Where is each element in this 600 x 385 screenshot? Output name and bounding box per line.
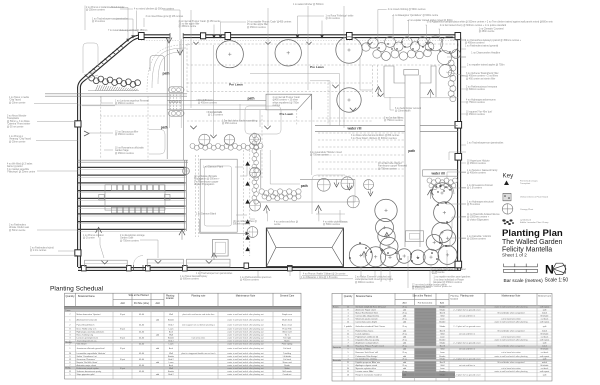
svg-text:cut to base late winter: cut to base late winter — [501, 367, 521, 370]
svg-text:mulch: mulch — [542, 345, 547, 347]
svg-text:Quantity: Quantity — [344, 295, 353, 298]
svg-text:@ 150mm centres: @ 150mm centres — [467, 238, 487, 241]
svg-text:Transplant: Transplant — [520, 182, 531, 185]
svg-text:6 no beds border removal: 6 no beds border removal — [395, 107, 422, 110]
svg-text:Trim Aug: Trim Aug — [283, 352, 291, 355]
svg-text:45-60: 45-60 — [139, 359, 145, 361]
svg-text:@ 1.5l centres: @ 1.5l centres — [467, 187, 483, 190]
svg-text:clipped Propagation: clipped Propagation — [194, 183, 215, 186]
svg-text:'Fillecrisps' @ 20mm centre: 'Fillecrisps' @ 20mm centre — [7, 171, 36, 174]
svg-text:Mulch feed: Mulch feed — [282, 319, 292, 321]
svg-text:split: split — [543, 308, 547, 311]
svg-text:@ 2m centres: @ 2m centres — [326, 17, 341, 20]
svg-text:water in well and mulch after: water in well and mulch after planting o… — [227, 313, 264, 316]
svg-text:Shade: Shade — [440, 359, 447, 361]
svg-text:3 no deep individual or Prayer: 3 no deep individual or Prayer — [434, 278, 465, 281]
svg-text:cut to base late winter: cut to base late winter — [501, 317, 521, 320]
svg-text:Heuchera 'Palace Purple' mixed: Heuchera 'Palace Purple' mixed — [356, 345, 384, 347]
svg-text:water in well and mulch after: water in well and mulch after planting o… — [227, 343, 264, 346]
svg-text:@ 450mm centres: @ 450mm centres — [467, 162, 487, 165]
svg-text:water in well and mulch after: water in well and mulch after planting o… — [227, 328, 264, 331]
svg-text:1 no espalier rambler panel ga: 1 no espalier rambler panel gardens — [434, 276, 472, 279]
svg-text:5: 5 — [69, 374, 71, 376]
svg-text:@ 450mm centres: @ 450mm centres — [240, 279, 260, 282]
svg-text:Add: Add — [403, 301, 408, 304]
svg-text:2l sq: 2l sq — [402, 339, 406, 341]
svg-text:45-60: 45-60 — [139, 365, 145, 367]
svg-text:45-60: 45-60 — [139, 325, 145, 327]
svg-text:@ 750mm centres: @ 750mm centres — [466, 101, 486, 104]
svg-text:water in well and mulch after: water in well and mulch after planting o… — [227, 355, 264, 358]
svg-text:Quantity: Quantity — [66, 295, 76, 298]
svg-text:Tie in: Tie in — [285, 335, 290, 337]
svg-text:3 no 'New Dawn' climbers @ 600: 3 no 'New Dawn' climbers @ 600mm centres — [351, 137, 398, 140]
svg-text:Border: Border — [168, 371, 174, 373]
svg-text:Pulmonaria 'Blue Ensign': Pulmonaria 'Blue Ensign' — [356, 356, 379, 358]
planting schedule table right — [332, 293, 552, 381]
svg-text:Sheet 1 of 2: Sheet 1 of 2 — [502, 253, 527, 258]
svg-text:Lawn: Lawn — [169, 362, 174, 364]
svg-text:location: location — [451, 297, 459, 300]
svg-text:1 no Fatshedera trained pyrami: 1 no Fatshedera trained pyramid — [465, 44, 499, 47]
svg-text:Garden Gate: Garden Gate — [120, 237, 134, 240]
svg-text:Carex elata aurea bright: Carex elata aurea bright — [356, 320, 378, 323]
svg-text:4 no Prunus 'Arakin' Globart @: 4 no Prunus 'Arakin' Globart @ 2m centre — [303, 272, 346, 275]
svg-text:4 no internal Prunus 'Cade': 4 no internal Prunus 'Cade' — [273, 96, 301, 99]
wall pillars — [75, 33, 462, 271]
svg-text:set out and firm in: set out and firm in — [459, 314, 475, 317]
svg-text:@ 250mm centres: @ 250mm centres — [86, 9, 106, 12]
svg-text:lift divide: lift divide — [541, 314, 550, 317]
svg-text:Prune Feb: Prune Feb — [282, 329, 292, 331]
svg-text:@ 5l centres: @ 5l centres — [467, 203, 481, 206]
svg-text:2 - 3 plant m2 as ground cover: 2 - 3 plant m2 as ground cover — [453, 358, 480, 361]
svg-text:Lift divide: Lift divide — [283, 355, 292, 358]
svg-text:4 no internal Prunus 'Cade' @: 4 no internal Prunus 'Cade' @ 450 centre — [179, 20, 222, 23]
svg-text:Farmhouse copper Renewal: Farmhouse copper Renewal — [378, 165, 407, 168]
pergola beams — [78, 160, 187, 231]
svg-text:500mm centres: 500mm centres — [233, 223, 250, 226]
svg-text:water in well and mulch after: water in well and mulch after planting — [495, 338, 528, 341]
spare — [0, 0, 1, 1]
svg-text:lift divide: lift divide — [541, 364, 550, 367]
title block — [502, 228, 563, 258]
specimen shrubs (crossed circles) — [183, 134, 374, 238]
svg-text:water in well and mulch after: water in well and mulch after planting o… — [227, 340, 264, 343]
svg-text:split: split — [543, 341, 547, 344]
svg-text:Border: Border — [439, 356, 445, 358]
key legend — [502, 173, 549, 226]
svg-text:2 - 3 plant m2 as ground cover: 2 - 3 plant m2 as ground cover — [453, 308, 480, 311]
svg-text:Myosotis sylvatica blue: Myosotis sylvatica blue — [356, 367, 377, 370]
svg-text:Astrantia major claret: Astrantia major claret — [77, 364, 97, 367]
dashed bed dividers — [100, 96, 250, 256]
svg-text:cut back: cut back — [541, 317, 548, 320]
svg-text:45-60: 45-60 — [139, 371, 145, 373]
svg-text:Maintenance Note: Maintenance Note — [236, 294, 256, 297]
svg-text:soft repeat: soft repeat — [540, 355, 550, 358]
svg-text:10 no like hebe clipped: 10 no like hebe clipped — [378, 163, 402, 165]
svg-text:Stake: Stake — [284, 367, 290, 370]
svg-text:Geranium 'Rozanne': Geranium 'Rozanne' — [77, 358, 96, 361]
svg-text:Wall: Wall — [440, 365, 444, 367]
svg-text:Pot Size (Litre): Pot Size (Litre) — [418, 301, 433, 304]
svg-text:2l sq: 2l sq — [402, 326, 406, 328]
svg-text:water in well and mulch after: water in well and mulch after planting — [495, 355, 528, 358]
svg-text:Botanical Name: Botanical Name — [78, 295, 96, 298]
svg-text:Lawn: Lawn — [169, 344, 174, 346]
svg-text:Lunaria annua 'Alba': Lunaria annua 'Alba' — [356, 370, 375, 373]
svg-text:N: N — [545, 263, 554, 277]
svg-text:2l sq: 2l sq — [402, 359, 406, 361]
svg-text:(4) no Salvia officinalis: (4) no Salvia officinalis — [194, 176, 218, 178]
svg-text:Verbal reference Plant Stand: Verbal reference Plant Stand — [520, 196, 549, 199]
svg-text:Asplenium scolopendrium: Asplenium scolopendrium — [356, 341, 379, 344]
svg-text:Arch: Arch — [169, 347, 173, 350]
svg-text:Bed 2: Bed 2 — [168, 325, 174, 327]
svg-text:3 no 1m box fillers: 3 no 1m box fillers — [384, 117, 403, 120]
svg-text:Malus 'Red Sentinel' fleet: Malus 'Red Sentinel' fleet — [356, 311, 379, 314]
svg-text:Pre Lawn: Pre Lawn — [310, 65, 324, 69]
svg-text:soft repeat: soft repeat — [540, 306, 550, 309]
svg-text:@ 450mm centres + 2 no fillers: @ 450mm centres + 2 no fillers — [466, 75, 499, 78]
glasshouse with hip roof — [266, 228, 343, 267]
svg-text:Wall: Wall — [169, 368, 173, 370]
svg-text:2 - 3 plant m2 as ground cover: 2 - 3 plant m2 as ground cover — [453, 373, 480, 376]
svg-text:Trees: Trees — [65, 310, 70, 312]
svg-text:Water well: Water well — [282, 331, 292, 334]
svg-text:2: 2 — [69, 325, 71, 327]
svg-text:water rill: water rill — [431, 172, 446, 176]
svg-text:1: 1 — [69, 348, 71, 350]
svg-text:Hakonechloa macra: Hakonechloa macra — [356, 330, 375, 332]
svg-text:3l pot: 3l pot — [120, 367, 125, 370]
svg-text:1 no Trachelospermum jasminoid: 1 no Trachelospermum jasminoides — [467, 142, 504, 145]
svg-text:Trim light: Trim light — [283, 337, 292, 340]
svg-text:Bed 2: Bed 2 — [168, 359, 174, 361]
svg-text:@ 450mm centres: @ 450mm centres — [247, 26, 267, 29]
east wall plant chain — [448, 60, 456, 102]
svg-text:Lawn: Lawn — [440, 336, 445, 338]
svg-text:3l pot: 3l pot — [120, 358, 125, 361]
bed outline north-middle — [245, 106, 281, 134]
svg-text:cut to base late winter: cut to base late winter — [501, 335, 521, 338]
svg-text:1 no Rosa 'Felbridge' treble: 1 no Rosa 'Felbridge' treble — [326, 15, 355, 18]
svg-text:@ 450mm centres: @ 450mm centres — [115, 133, 135, 136]
svg-text:underplanted with mixed spring: underplanted with mixed spring bulbs — [355, 278, 394, 281]
svg-text:symbolised: symbolised — [520, 220, 532, 222]
svg-text:Jasminum officinale grand trai: Jasminum officinale grand trail — [77, 347, 106, 350]
north arrow and scale — [545, 263, 569, 284]
svg-text:Border: Border — [168, 319, 174, 321]
svg-text:2 no Malus 'Evereste' pleached: 2 no Malus 'Evereste' pleached and — [355, 276, 392, 279]
svg-text:climate 'Aruba' seat: climate 'Aruba' seat — [9, 226, 29, 229]
svg-text:water in well and mulch after: water in well and mulch after planting — [495, 306, 528, 309]
svg-text:add: add — [403, 362, 406, 364]
svg-text:1 no Taxus x media: 1 no Taxus x media — [9, 97, 29, 99]
svg-text:Tiarella cordifolia: Tiarella cordifolia — [356, 348, 372, 350]
svg-text:plant with root barrier and st: plant with root barrier and stake firm — [182, 313, 214, 316]
svg-text:water in well and mulch after: water in well and mulch after planting o… — [227, 318, 264, 321]
svg-text:3 no Alnus Wonder: 3 no Alnus Wonder — [7, 115, 27, 118]
svg-text:add: add — [156, 335, 159, 337]
svg-text:soft repeat: soft repeat — [540, 320, 550, 323]
svg-text:1 no Hydrangea structural: 1 no Hydrangea structural — [467, 201, 494, 204]
path edge above pergola — [78, 160, 188, 162]
svg-text:split: split — [543, 373, 547, 376]
svg-text:2l sq: 2l sq — [402, 312, 406, 314]
svg-text:water in well and mulch after: water in well and mulch after planting o… — [227, 337, 264, 340]
svg-text:Rosa 'Iceberg' clg: Rosa 'Iceberg' clg — [77, 334, 94, 337]
svg-text:lift divide: lift divide — [541, 332, 550, 335]
svg-text:1 no Prunus modest: 1 no Prunus modest — [83, 234, 104, 237]
arch detail — [431, 183, 454, 194]
svg-text:5 no Farmhouse copper: 5 no Farmhouse copper — [194, 180, 219, 183]
svg-text:plant in staggered double row: plant in staggered double row as low h — [181, 352, 215, 355]
svg-text:Salvia 'Caradonna' int: Salvia 'Caradonna' int — [77, 355, 98, 358]
svg-text:Add: Add — [155, 302, 160, 305]
svg-text:water in well and mulch after: water in well and mulch after planting o… — [227, 367, 264, 370]
svg-text:add: add — [156, 319, 159, 321]
svg-text:Brunnera 'Jack Frost' still: Brunnera 'Jack Frost' still — [356, 351, 379, 354]
svg-text:mulch: mulch — [542, 362, 547, 364]
svg-text:wire support set out before pl: wire support set out before planting o — [182, 324, 216, 327]
svg-text:Bed 3: Bed 3 — [440, 312, 446, 314]
svg-text:centres: centres — [273, 104, 281, 107]
planting schedule table left — [65, 293, 302, 379]
svg-text:15 no like apple filler: 15 no like apple filler — [247, 23, 268, 26]
svg-text:Transplants: Transplants — [7, 117, 20, 120]
svg-text:3 no Rosa rubra bonica Ambitio: 3 no Rosa rubra bonica Ambition @450 cen… — [351, 134, 400, 137]
svg-text:@ 750mm centres: @ 750mm centres — [378, 167, 398, 170]
svg-text:21: 21 — [347, 362, 350, 364]
svg-text:mulch: mulch — [542, 330, 547, 332]
svg-text:3 no Fatshedera: 3 no Fatshedera — [9, 224, 26, 227]
svg-text:Lawn: Lawn — [440, 368, 445, 370]
svg-text:2 - 3 plant m2 as ground cover: 2 - 3 plant m2 as ground cover — [453, 325, 480, 328]
svg-text:Feed spring: Feed spring — [282, 344, 293, 346]
svg-text:water in well and mulch after: water in well and mulch after planting o… — [227, 364, 264, 367]
svg-text:Verbena bonariensis purity: Verbena bonariensis purity — [77, 370, 103, 373]
svg-text:Pre Lawn: Pre Lawn — [229, 83, 243, 87]
svg-text:Pyrus Broad Beech: Pyrus Broad Beech — [77, 324, 96, 327]
svg-text:10 squares? for 40m 'just': 10 squares? for 40m 'just' — [466, 111, 493, 114]
svg-text:11 no Hyacinths Azalea Flounce: 11 no Hyacinths Azalea Flounce — [467, 213, 500, 216]
svg-text:Border: Border — [439, 339, 445, 341]
svg-text:45-60: 45-60 — [139, 338, 145, 340]
callout note box — [266, 94, 312, 110]
svg-text:add: add — [403, 321, 406, 323]
dashed lower lawn terraces — [262, 115, 405, 179]
svg-text:Comb out: Comb out — [283, 373, 292, 376]
svg-text:@ 750mm centres: @ 750mm centres — [384, 119, 404, 122]
svg-text:10 no Rosmarinus officinalis: 10 no Rosmarinus officinalis — [115, 147, 145, 150]
svg-text:@ 450mm centre: @ 450mm centre — [179, 25, 197, 28]
svg-text:3l pot: 3l pot — [120, 337, 125, 340]
svg-text:Roses: Roses — [333, 307, 339, 309]
svg-text:Vitis 'Brant': Vitis 'Brant' — [77, 343, 88, 346]
svg-text:set out and firm in: set out and firm in — [459, 364, 475, 367]
svg-text:@ 450mm centres: @ 450mm centres — [115, 102, 135, 105]
svg-text:4 no Lavandula 'Hidcote' mixed: 4 no Lavandula 'Hidcote' mixed — [310, 151, 342, 154]
svg-text:lift and divide when congested: lift and divide when congested — [498, 329, 525, 332]
svg-text:Wall: Wall — [440, 348, 444, 350]
svg-text:15 no like apple filler: 15 no like apple filler — [179, 23, 200, 26]
svg-text:Dryopteris filix-mas quality: Dryopteris filix-mas quality — [356, 338, 379, 341]
svg-text:Border: Border — [439, 321, 445, 323]
svg-text:Wall: Wall — [169, 335, 173, 337]
svg-text:@ choice Edgecases: @ choice Edgecases — [467, 219, 489, 221]
svg-text:General Care: General Care — [280, 294, 295, 297]
svg-text:water rill: water rill — [347, 127, 362, 131]
svg-text:Self seeds: Self seeds — [282, 371, 291, 373]
bed outline east room — [312, 94, 345, 214]
svg-text:lift divide: lift divide — [541, 347, 550, 350]
svg-text:Planting Schedual: Planting Schedual — [50, 285, 104, 292]
svg-text:45-60: 45-60 — [139, 314, 145, 316]
svg-text:@ 450mm centres: @ 450mm centres — [467, 172, 487, 175]
svg-text:Border: Border — [168, 338, 174, 340]
svg-text:water in well and mulch after: water in well and mulch after planting o… — [227, 331, 264, 334]
svg-text:2l sq: 2l sq — [402, 352, 406, 354]
svg-text:Shade: Shade — [440, 326, 447, 328]
svg-text:whips espaliered @ 750m: whips espaliered @ 750m — [273, 101, 300, 104]
svg-text:Wall: Wall — [169, 353, 173, 355]
svg-text:3 no market supertitle: 3 no market supertitle — [7, 168, 30, 171]
svg-text:Fern/shrub verges: Fern/shrub verges — [520, 180, 539, 183]
svg-text:Aquilegia vulgaris mixed: Aquilegia vulgaris mixed — [356, 364, 378, 367]
svg-text:1 no Clematis 'Countess': 1 no Clematis 'Countess' — [479, 28, 505, 31]
svg-text:Bed 3: Bed 3 — [440, 330, 446, 332]
svg-text:Lonicera periclymenum: Lonicera periclymenum — [77, 337, 99, 340]
svg-text:2 no Fatshedera hybrid: 2 no Fatshedera hybrid — [30, 247, 54, 250]
svg-text:7: 7 — [69, 314, 71, 316]
svg-text:'Caterina' Finest winter: 'Caterina' Finest winter — [7, 123, 30, 126]
svg-text:Polystichum setiferum sld: Polystichum setiferum sld — [356, 335, 379, 338]
svg-text:1 no Fillasacus x Intra @ 1.5l: 1 no Fillasacus x Intra @ 1.5l centre — [301, 276, 338, 279]
svg-text:'Amanog' 'Chip' faced: 'Amanog' 'Chip' faced — [9, 138, 32, 141]
svg-text:@ 500m centres: @ 500m centres — [323, 223, 341, 226]
svg-text:4 no Hydrangea arborescens: 4 no Hydrangea arborescens — [466, 99, 496, 102]
svg-text:Arch: Arch — [169, 331, 173, 334]
svg-text:Gertrude Jekyll old Rose dbl q: Gertrude Jekyll old Rose dbl quad — [356, 306, 386, 309]
svg-text:@ 450m centre: @ 450m centre — [479, 30, 495, 33]
svg-text:Wall: Wall — [440, 315, 444, 317]
svg-text:Edible Lavender Plant Clump: Edible Lavender Plant Clump — [520, 221, 549, 224]
path - middle room edges — [258, 150, 355, 202]
svg-text:Bed 3: Bed 3 — [440, 345, 446, 347]
svg-text:Wall: Wall — [440, 333, 444, 335]
svg-text:water in well and mulch after: water in well and mulch after planting o… — [227, 352, 264, 355]
svg-text:@ 50 net centre: @ 50 net centre — [7, 125, 24, 128]
svg-text:2l sq: 2l sq — [402, 371, 406, 373]
svg-text:Bed 3: Bed 3 — [440, 362, 446, 364]
bench table with chairs — [99, 185, 170, 213]
svg-text:1 no award climber @ 500mm: 1 no award climber @ 500mm — [293, 3, 324, 6]
svg-text:2l sq: 2l sq — [402, 365, 406, 367]
svg-text:Hesperis matronalis mixed lot: Hesperis matronalis mixed lot — [356, 373, 383, 376]
svg-text:Digitalis purpurea 'Alba' mix: Digitalis purpurea 'Alba' mix — [356, 361, 381, 364]
bar scale — [504, 264, 544, 284]
svg-text:1 no Lonicera arquebus Renewal: 1 no Lonicera arquebus Renewal — [115, 100, 149, 103]
svg-text:mulch: mulch — [542, 312, 547, 314]
svg-text:@ 450mm centres: @ 450mm centres — [198, 102, 218, 105]
svg-text:5: 5 — [347, 352, 349, 354]
svg-text:3l pot: 3l pot — [120, 328, 125, 331]
svg-text:Basic clean: Basic clean — [282, 325, 292, 327]
svg-text:@ 450mm centres: @ 450mm centres — [466, 113, 486, 116]
svg-text:water in well and mulch after: water in well and mulch after planting o… — [227, 324, 264, 327]
svg-text:Garden Sage: Garden Sage — [115, 149, 129, 152]
svg-text:Add: Add — [120, 302, 125, 305]
svg-text:set out and firm in: set out and firm in — [459, 332, 475, 335]
svg-text:2l sq: 2l sq — [402, 307, 406, 309]
svg-text:Propagation @ 500mm +: Propagation @ 500mm + — [194, 178, 220, 181]
svg-text:2l sq: 2l sq — [402, 345, 406, 347]
gate opening — [134, 256, 144, 271]
svg-text:1 no Damson Blank: 1 no Damson Blank — [196, 214, 217, 216]
svg-text:Iris foetidissima stinking: Iris foetidissima stinking — [356, 358, 377, 361]
svg-text:path: path — [161, 125, 168, 129]
tree canopies — [216, 37, 457, 267]
svg-text:3 no Verbena 'Sissinghurst' fi: 3 no Verbena 'Sissinghurst' filler — [466, 72, 499, 75]
svg-text:Border: Border — [439, 371, 445, 373]
svg-text:@450 centres + 15 silver: @450 centres + 15 silver — [273, 99, 299, 102]
svg-text:water in well and mulch after: water in well and mulch after planting o… — [227, 347, 264, 350]
svg-text:2 no fan trained cherry @ 600m: 2 no fan trained cherry @ 600mm centres … — [440, 24, 507, 27]
raised beds along south wall — [85, 259, 230, 267]
scallop bed below tree row — [190, 143, 263, 150]
svg-text:1 no Taxus baccata topiary: 1 no Taxus baccata topiary — [180, 275, 208, 278]
svg-text:2 no trellis clad panel fence: 2 no trellis clad panel fence panel — [432, 268, 467, 271]
svg-text:soft repeat: soft repeat — [540, 370, 550, 373]
svg-text:Staple care: Staple care — [282, 313, 293, 316]
svg-text:@ 1500mm centres +: @ 1500mm centres + — [467, 216, 490, 219]
svg-text:Planting Plan: Planting Plan — [502, 228, 563, 239]
svg-text:@ 450mm centres: @ 450mm centres — [115, 152, 135, 155]
svg-text:4 no umbra arch/box @: 4 no umbra arch/box @ — [274, 220, 299, 223]
outside path loop — [83, 43, 98, 73]
svg-text:add: add — [403, 368, 406, 370]
svg-text:Bar scale (metres): Bar scale (metres) — [504, 278, 544, 284]
svg-text:(4) no picked arches @: (4) no picked arches @ — [233, 220, 257, 223]
svg-text:@ set centres: @ set centres — [412, 288, 425, 291]
water rill east — [423, 170, 458, 176]
svg-text:path: path — [248, 97, 255, 101]
svg-text:add: add — [403, 348, 406, 350]
svg-text:Add: Add — [440, 301, 445, 304]
svg-text:Shade: Shade — [440, 309, 447, 311]
scallop east bed — [427, 178, 458, 190]
area labels — [161, 65, 415, 188]
svg-text:Anemone 'Royal' claret: Anemone 'Royal' claret — [356, 308, 377, 311]
svg-text:water in well and mulch after: water in well and mulch after planting o… — [227, 361, 264, 364]
svg-text:lift and divide when congested: lift and divide when congested — [498, 361, 525, 364]
svg-text:Bed 2: Bed 2 — [168, 341, 174, 343]
svg-text:3 no mixed Rose grow @ 2l5 cen: 3 no mixed Rose grow @ 2l5 centres — [146, 15, 185, 18]
svg-text:Malus domestica 'Spartan': Malus domestica 'Spartan' — [77, 313, 102, 316]
svg-text:@ 10mm width: @ 10mm width — [395, 110, 411, 113]
svg-text:Trachelospermum jas.: Trachelospermum jas. — [77, 340, 98, 343]
svg-text:water in well and mulch after: water in well and mulch after planting — [495, 370, 528, 373]
svg-text:@ 750mm centres: @ 750mm centres — [120, 239, 140, 242]
svg-text:Cut back: Cut back — [283, 347, 291, 350]
svg-text:Key: Key — [503, 173, 515, 180]
svg-text:Arch: Arch — [169, 364, 173, 367]
wall - garden boundary — [78, 35, 461, 271]
leader lines — [30, 6, 466, 289]
svg-text:2 - 3 plant m2 as ground cover: 2 - 3 plant m2 as ground cover — [453, 341, 480, 344]
